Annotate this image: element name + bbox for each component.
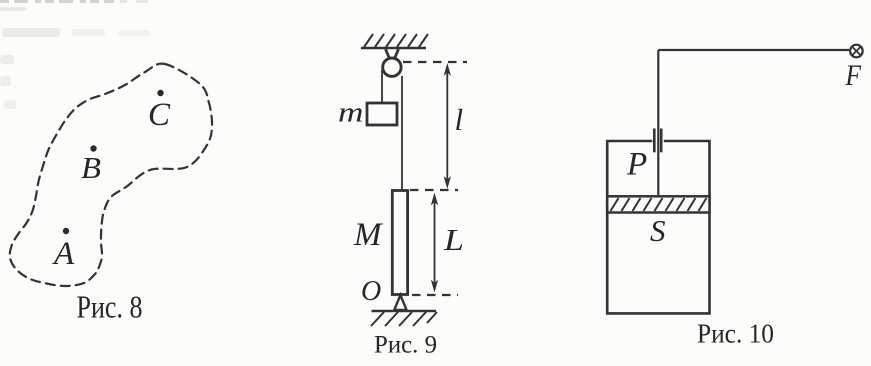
- mass m block: [367, 103, 397, 125]
- svg-text:B: B: [81, 150, 101, 185]
- label l: [455, 102, 464, 137]
- svg-text:O: O: [361, 276, 381, 307]
- label L: [443, 222, 464, 257]
- dashed extension line at pulley level: [403, 61, 467, 63]
- svg-text:M: M: [353, 217, 383, 253]
- label C: [148, 97, 171, 133]
- ground line: [372, 310, 437, 313]
- lamp F (circle with cross): [850, 45, 863, 58]
- svg-text:A: A: [52, 236, 75, 272]
- faint page bleed-through marks (decorative): [0, 2, 162, 110]
- ceiling line: [361, 47, 426, 50]
- dimension arrow l (double-headed): [444, 63, 451, 189]
- label M: [353, 217, 383, 253]
- svg-text:F: F: [845, 59, 862, 92]
- svg-text:P: P: [626, 147, 647, 183]
- label F: [845, 59, 862, 92]
- caption Рис. 9: [374, 332, 437, 359]
- svg-text:C: C: [148, 97, 171, 133]
- svg-text:Рис. 10: Рис. 10: [697, 319, 774, 349]
- dashed extension line at rod top: [410, 189, 458, 191]
- caption Рис. 8: [77, 289, 143, 325]
- caption Рис. 10: [697, 319, 774, 349]
- electrode wire (vertical): [657, 50, 659, 196]
- label P: [626, 147, 647, 183]
- point B dot: [90, 145, 96, 151]
- rope right (pulley to rod): [401, 76, 403, 191]
- vessel walls (Fig 10): [607, 141, 709, 313]
- piston S (hatched): [607, 196, 709, 212]
- feed-through insulator bars: [654, 129, 661, 153]
- region outline (dashed blob, Fig 8): [10, 64, 212, 286]
- svg-text:m: m: [338, 97, 364, 129]
- pivot support triangle: [394, 295, 406, 310]
- wire horizontal to lamp: [658, 49, 849, 51]
- rope left (pulley to mass m): [381, 70, 383, 103]
- svg-text:Рис. 8: Рис. 8: [77, 289, 143, 325]
- pulley hanger bracket: [386, 49, 399, 65]
- label O: [361, 276, 381, 307]
- label S: [650, 213, 666, 248]
- label m: [338, 97, 364, 129]
- dimension arrow L (double-headed): [431, 193, 438, 293]
- label B: [81, 150, 101, 185]
- rod M: [392, 191, 407, 295]
- ground hatching: [371, 312, 437, 326]
- svg-text:S: S: [650, 213, 666, 248]
- point C dot: [157, 90, 163, 96]
- svg-text:Рис. 9: Рис. 9: [374, 332, 437, 359]
- svg-text:l: l: [455, 102, 464, 137]
- label A: [52, 236, 75, 272]
- svg-text:L: L: [443, 222, 464, 257]
- pulley: [383, 58, 401, 76]
- dashed extension line at rod bottom: [412, 294, 458, 296]
- ceiling hatching (Fig 9): [364, 34, 428, 47]
- point A dot: [63, 228, 69, 234]
